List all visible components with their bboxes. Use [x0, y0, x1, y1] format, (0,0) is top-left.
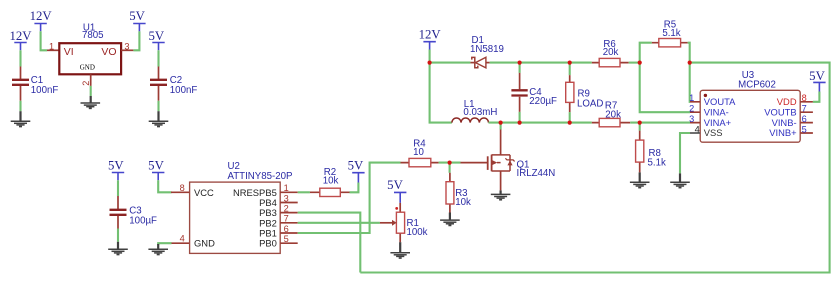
svg-text:2: 2 [81, 81, 91, 86]
svg-text:12V: 12V [30, 9, 53, 23]
svg-text:10k: 10k [455, 197, 471, 208]
capacitor C4 [511, 63, 527, 123]
capacitor C2 [150, 67, 167, 101]
svg-text:7: 7 [284, 214, 289, 224]
svg-text:8: 8 [802, 93, 807, 103]
ground (Q1 source) [491, 190, 511, 199]
capacitor C1 [12, 67, 29, 101]
svg-text:20k: 20k [605, 110, 621, 121]
svg-text:MCP602: MCP602 [738, 80, 776, 91]
wire C3 top [117, 180, 119, 196]
svg-text:ATTINY85-20P: ATTINY85-20P [228, 171, 293, 182]
voltage regulator U1 box [59, 43, 121, 74]
inductor L1 [452, 118, 489, 123]
U3 right pin stubs [800, 102, 813, 133]
node VINA- [638, 61, 642, 65]
svg-text:5.1k: 5.1k [648, 158, 666, 169]
power flag 5V (U3 VDD) [809, 69, 825, 91]
power flag 5V (U1 output) [129, 9, 145, 31]
svg-text:5: 5 [802, 124, 807, 134]
label U2 ATTINY85-20P [228, 161, 293, 182]
diode D1 1N5819 [470, 57, 489, 68]
svg-text:20k: 20k [603, 47, 619, 58]
label R3 10k [455, 188, 471, 208]
wire U1 pin2 to ground [90, 86, 92, 96]
label R4 10 [413, 138, 426, 157]
wire bottom rail middle [489, 122, 592, 124]
svg-text:3: 3 [689, 114, 694, 124]
power flag 12V (converter input) [419, 27, 442, 49]
svg-text:VI: VI [64, 46, 74, 58]
ground (R3) [440, 213, 460, 226]
wire U2 PB2 to R1 wiper [298, 222, 380, 224]
svg-text:0.03mH: 0.03mH [463, 107, 497, 118]
svg-text:VO: VO [101, 46, 116, 58]
resistor R4 [401, 158, 439, 166]
power flag 5V (C2 column) [148, 29, 164, 50]
node VINA+ [638, 121, 642, 125]
ground (R1) [390, 242, 410, 258]
svg-text:PB0: PB0 [259, 238, 277, 249]
svg-text:8: 8 [180, 183, 185, 193]
label R2 10k [323, 167, 339, 186]
svg-text:6: 6 [284, 224, 289, 234]
label R1 100k [407, 218, 428, 238]
svg-text:1N5819: 1N5819 [470, 44, 504, 55]
node Q1 drain [499, 121, 503, 125]
ground (C1) [11, 111, 31, 126]
svg-text:IRLZ44N: IRLZ44N [517, 168, 556, 179]
label R5 5.1k [662, 20, 680, 40]
wire U3 VSS to ground [680, 133, 690, 173]
svg-text:1: 1 [284, 183, 289, 193]
svg-text:100nF: 100nF [170, 85, 198, 96]
capacitor C3 [110, 196, 127, 229]
wire top rail right (VOUTA to feedback loop) [360, 63, 829, 273]
wire VOUTA up to feedback node [689, 63, 691, 102]
wire C1 bottom [19, 101, 21, 111]
power flag 5V (U2 VCC) [148, 159, 164, 181]
wire C1 top [19, 50, 21, 66]
wire C2 top [157, 50, 159, 66]
ground (C3) [108, 242, 128, 255]
IC U2 ATTINY85-20P box [190, 182, 281, 253]
svg-text:5V: 5V [387, 178, 403, 192]
power flag 12V (U1 input) [30, 9, 53, 31]
svg-text:1: 1 [49, 41, 54, 51]
svg-text:5V: 5V [148, 159, 164, 173]
ground (U2) [148, 244, 168, 255]
svg-text:VCC: VCC [194, 187, 214, 198]
svg-text:5V: 5V [129, 9, 145, 23]
U3 pin 1 marker [704, 94, 707, 97]
svg-text:2: 2 [284, 204, 289, 214]
transistor Q1 IRLZ44N [461, 130, 515, 191]
wire U3 VDD to 5V [813, 92, 820, 102]
svg-text:VINA+: VINA+ [704, 117, 732, 128]
U3 left pin stubs [690, 102, 700, 123]
svg-text:VINA-: VINA- [704, 106, 729, 117]
wire C2 bottom [157, 101, 159, 111]
svg-text:5: 5 [284, 234, 289, 244]
wire R7 to U3 pin 3 [630, 122, 690, 124]
svg-text:7: 7 [802, 104, 807, 114]
label L1 0.03mH [463, 99, 497, 118]
svg-text:12V: 12V [9, 29, 32, 43]
resistor R6 [592, 58, 629, 66]
power flag 5V (R1 top) [387, 178, 406, 203]
wire U2 pin1 to R2 [298, 191, 310, 193]
ground (R8) [630, 172, 650, 187]
power flag 5V (R2 pullup) [348, 159, 365, 183]
power flag 12V (C1 column) [9, 29, 32, 50]
resistor R5 (feedback) [640, 39, 690, 63]
wire 12V to U1 pin 1 [41, 31, 47, 50]
wire top rail middle [490, 62, 592, 64]
svg-text:5V: 5V [348, 159, 364, 173]
svg-text:100nF: 100nF [31, 85, 59, 96]
svg-text:10: 10 [413, 147, 424, 158]
svg-text:LOAD: LOAD [577, 98, 603, 109]
resistor R2 [310, 188, 350, 196]
ground (U3 VSS) [670, 173, 690, 187]
resistor R3 [446, 173, 454, 213]
U1 pin 2 stub [90, 74, 92, 86]
svg-text:VOUTB: VOUTB [764, 106, 796, 117]
svg-text:3: 3 [124, 41, 129, 51]
wire R4 to Q1 gate [439, 162, 461, 164]
label R7 20k [605, 101, 621, 121]
svg-text:VOUTA: VOUTA [704, 96, 736, 107]
U2 pin 4 stub [171, 242, 190, 244]
wire U2 pin 4 to ground [158, 243, 171, 245]
label C2 100nF [170, 75, 198, 96]
node C4 top [518, 61, 522, 65]
wire R2 to 5V [350, 183, 359, 193]
wire R6 to VINA- node [629, 62, 640, 64]
U1 pin 3 stub [121, 49, 133, 51]
node Q1 gate / R3 [448, 161, 452, 165]
svg-text:5.1k: 5.1k [662, 28, 680, 39]
wire 12V down [429, 50, 431, 63]
svg-text:GND: GND [80, 63, 95, 71]
U3 pin 4 stub (VSS) [690, 132, 700, 134]
resistor R7 [592, 118, 630, 126]
label C1 100nF [31, 75, 59, 96]
svg-text:220µF: 220µF [529, 96, 557, 107]
svg-text:10k: 10k [323, 175, 339, 186]
svg-text:GND: GND [194, 238, 215, 249]
wire U2 PB1 to R4 [298, 163, 401, 233]
wire U2 PB3 feedback [298, 213, 361, 273]
IC U3 MCP602 box [700, 90, 800, 142]
resistor R8 [636, 123, 644, 173]
ground (C2) [149, 111, 169, 126]
label U1 7805 [82, 22, 104, 41]
power flag 5V (C3 column) [108, 159, 124, 181]
svg-text:5V: 5V [809, 69, 825, 83]
svg-text:100k: 100k [407, 227, 428, 238]
U2 pin 8 stub [171, 191, 190, 193]
svg-text:7805: 7805 [82, 30, 104, 41]
svg-text:6: 6 [802, 114, 807, 124]
U2 right pin stubs [280, 192, 298, 243]
label U3 MCP602 [738, 70, 776, 90]
wire C3 bottom [117, 229, 119, 242]
svg-text:VINB+: VINB+ [769, 127, 797, 138]
svg-text:100µF: 100µF [129, 215, 157, 226]
U1 pin 1 stub [47, 49, 59, 51]
svg-text:5V: 5V [148, 29, 164, 43]
wire junction down to R3 [449, 163, 451, 173]
wire 12V to L1 [430, 63, 452, 123]
wire top rail left segment [430, 62, 471, 64]
wire 5V to U2 pin 8 [158, 180, 171, 192]
node C4 bottom [518, 121, 522, 125]
potentiometer R1 [380, 203, 405, 242]
svg-text:12V: 12V [419, 27, 442, 41]
svg-text:VINB-: VINB- [772, 117, 797, 128]
node R9 top [568, 61, 572, 65]
svg-text:4: 4 [695, 124, 700, 134]
wire VINA- node down to U3 pin 2 [640, 63, 690, 113]
label R6 20k [603, 39, 619, 58]
svg-text:2: 2 [689, 104, 694, 114]
wire Q1 drain to rail [500, 123, 502, 130]
ground (U1) [81, 96, 101, 108]
svg-text:VDD: VDD [777, 96, 797, 107]
svg-text:1: 1 [689, 93, 694, 103]
label R8 5.1k [648, 148, 666, 169]
svg-text:4: 4 [180, 234, 185, 244]
label D1 1N5819 [470, 35, 504, 55]
label Q1 IRLZ44N [517, 159, 556, 179]
label R9 LOAD [577, 88, 603, 109]
svg-text:5V: 5V [108, 159, 124, 173]
node 12V rail [428, 61, 432, 65]
label C3 100uF [129, 205, 157, 226]
svg-text:3: 3 [284, 193, 289, 203]
label C4 220uF [529, 87, 557, 107]
node VOUTA [688, 61, 692, 65]
node R9 bottom [568, 121, 572, 125]
svg-text:VSS: VSS [704, 127, 723, 138]
wire U1 pin3 to 5V [133, 31, 139, 50]
resistor R9 (load) [566, 63, 574, 123]
